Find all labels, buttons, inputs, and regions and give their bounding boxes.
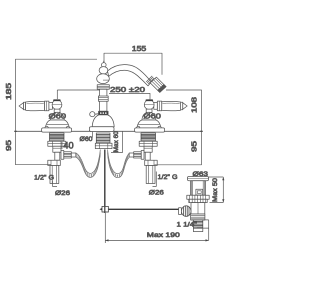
svg-text:108: 108 [192,97,199,113]
right lever acorn tip [183,103,188,110]
spout rings [146,76,154,84]
rod left tip [100,208,103,211]
rod clevis square [102,206,108,212]
drain locknut [187,195,209,199]
drain tail stub [193,228,202,231]
pop-up knob [90,112,95,117]
svg-text:Ø60: Ø60 [80,136,93,143]
right supply pipe [146,166,155,184]
right handle ball [144,100,154,110]
center shank nut [95,143,112,148]
left base skirt [45,120,69,128]
neck band [97,85,109,90]
left base plinth [42,128,72,132]
drain window [196,189,203,195]
left pipe nut [48,160,61,165]
left handle group [19,99,72,132]
column O60 extension [92,132,94,138]
svg-text:1/2" G: 1/2" G [34,175,54,182]
aerator end cap [158,85,166,93]
left ball cap [53,99,61,101]
right bonnet dome [142,112,156,120]
left lever body [26,101,45,110]
svg-text:Ø26: Ø26 [55,190,70,197]
right lever collar [157,101,161,111]
left bonnet dome [50,112,64,120]
dim tick right [200,130,203,132]
pop-up rod vertical [104,150,106,214]
dim 250+-20 underline + drop [109,93,150,99]
spout tube [108,65,152,86]
right below-deck group (mirror) [129,133,157,184]
svg-text:95: 95 [192,141,199,152]
svg-text:Ø60: Ø60 [49,112,67,121]
left collar neck [49,102,53,109]
column dark ornament band [99,111,109,115]
left below-deck group [48,133,76,184]
right port tip [129,153,134,157]
drain ball joint knob [181,206,191,217]
dim 250+-20 left segment [57,90,99,99]
center shank threaded [96,133,110,143]
svg-text:250 ±20: 250 ±20 [110,87,145,94]
svg-text:Max 60: Max 60 [113,131,120,152]
label 40 + tick [61,142,63,149]
left shank nut [48,141,66,146]
left acorn ring [24,102,26,110]
left valve body [53,146,61,152]
svg-text:Max 50: Max 50 [212,178,219,202]
right base skirt [137,120,161,128]
right valve body [144,146,152,152]
right port flange [141,151,144,160]
right dim polyline (108/95) [155,90,202,165]
left 1/2G leader [53,181,58,187]
right lower tube [145,152,150,160]
drain lower body [191,203,205,214]
right base plinth [135,128,165,132]
deck line [16,130,202,132]
svg-text:1/2" G: 1/2" G [158,174,178,181]
svg-text:95: 95 [6,140,13,151]
Max 190 dim line [105,239,208,241]
horizontal rod [108,208,181,210]
right acorn ring [181,102,183,110]
column shaft [100,89,107,111]
left lower tube [55,152,60,160]
1 1/4 bracket [191,220,208,241]
base flange [89,127,114,132]
drain tailpiece threaded [193,220,202,228]
left port tip [71,153,76,157]
left lever collar [45,101,49,111]
bell base [92,115,114,127]
Max 60 bracket [111,131,123,152]
pop-up knob stem [95,113,99,115]
center column finial knob [103,61,105,63]
right skirt feet [158,126,161,129]
hose left [76,150,101,178]
svg-text:1 1/4": 1 1/4" [177,221,198,228]
drain upper body [190,181,205,196]
Max 50 bracket [209,177,224,203]
svg-text:40: 40 [63,140,73,150]
drain flange [187,177,208,181]
svg-text:155: 155 [132,46,147,53]
left port cylinder [64,152,72,158]
drain tail nut [191,214,205,220]
right handle group (mirror) [135,99,188,132]
drain ball rod collar [179,208,182,215]
left skirt feet [45,126,48,129]
dim 185/95 left polyline [16,59,98,165]
hose right [108,150,130,178]
column ring bulge [98,96,108,101]
center column mid ball [99,67,108,74]
left stem [54,109,60,112]
right ball cap [146,99,154,101]
right shank nut [139,141,157,146]
dim tick left [14,130,17,132]
svg-text:Ø26: Ø26 [149,190,164,197]
right port cylinder [134,152,142,158]
svg-text:185: 185 [6,83,13,100]
right 1/2G leader [153,172,157,187]
right stem [146,109,152,112]
svg-text:Ø60: Ø60 [143,112,161,121]
right collar neck [154,102,158,109]
svg-text:Max 190: Max 190 [147,232,180,239]
left handle ball [52,100,62,110]
left lever acorn tip [19,103,24,110]
dim 155 bracket [104,53,162,75]
left shank threaded [50,133,65,141]
left port flange [61,151,64,160]
right lever body [162,101,181,110]
aerator [150,77,166,92]
right pipe nut [145,160,158,165]
right shank threaded [141,133,156,141]
spout ball joint [97,74,110,84]
left supply pipe [50,166,59,184]
svg-text:Ø63: Ø63 [193,171,209,178]
